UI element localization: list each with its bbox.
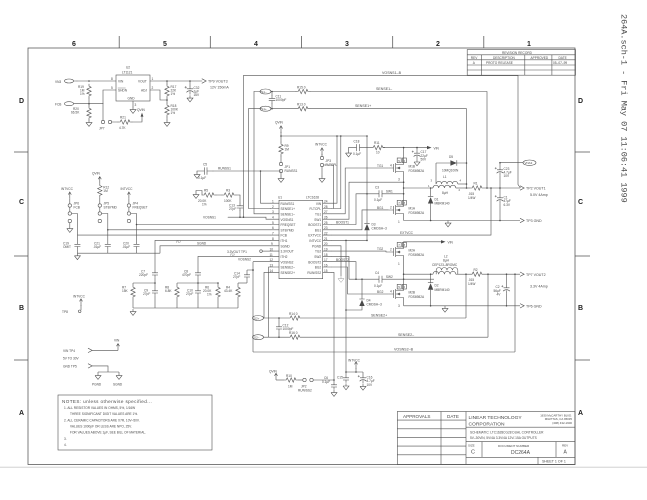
svg-text:THREE SIGNIFICANT DIGIT VALUES: THREE SIGNIFICANT DIGIT VALUES ARE 1%. — [70, 412, 138, 416]
wire TG1 — [332, 163, 393, 213]
capacitor C32 — [185, 80, 200, 97]
jumper JP2 — [298, 378, 334, 392]
svg-text:05–07–99: 05–07–99 — [553, 61, 567, 65]
svg-text:SW1: SW1 — [314, 218, 321, 222]
svg-text:FOR VALUES ABOVE 1µF, SEE BILL: FOR VALUES ABOVE 1µF, SEE BILL OF MATERI… — [70, 431, 146, 435]
test point TP6 — [520, 304, 542, 309]
node VIN TP4 — [63, 348, 118, 353]
jumper JP4 FREQSET — [127, 199, 147, 223]
svg-text:U2: U2 — [126, 66, 130, 70]
resistor R17 — [165, 80, 177, 103]
wire RUNSS1 — [213, 167, 281, 171]
svg-text:.01µF: .01µF — [93, 245, 101, 249]
svg-text:4: 4 — [390, 163, 392, 167]
svg-text:3.3VOUT: 3.3VOUT — [281, 250, 294, 254]
svg-text:JP7: JP7 — [99, 126, 105, 130]
svg-text:22: 22 — [324, 232, 328, 236]
resistor R12 — [98, 183, 110, 203]
svg-text:(*2): (*2) — [230, 252, 235, 256]
svg-text:APPROVED: APPROVED — [531, 56, 549, 60]
zone tick marks left — [14, 152, 28, 360]
wire PGND2 row — [404, 305, 520, 307]
svg-text:3: 3 — [398, 177, 400, 181]
resistor R19 — [78, 80, 91, 98]
svg-text:D5: D5 — [449, 155, 453, 159]
svg-text:3: 3 — [272, 210, 274, 214]
svg-text:6: 6 — [72, 41, 76, 48]
svg-text:SENSE2–: SENSE2– — [398, 333, 414, 337]
wire SENSE1- riser — [486, 92, 488, 189]
svg-text:TP3 GND: TP3 GND — [526, 219, 542, 223]
svg-text:S1+: S1+ — [261, 107, 267, 111]
svg-text:DATE: DATE — [559, 56, 567, 60]
svg-text:1M: 1M — [288, 385, 293, 389]
svg-text:S2–: S2– — [254, 336, 260, 340]
svg-text:BOOST1: BOOST1 — [308, 223, 321, 227]
test point TP9 — [202, 79, 229, 90]
ground on PGND2 row — [442, 306, 448, 312]
transistor M1B — [389, 159, 425, 181]
svg-text:4.7K: 4.7K — [119, 126, 126, 130]
left pin stubs — [271, 203, 280, 272]
wire M1B drain to VIN rail — [403, 148, 405, 159]
wire M2B drain to SW2 — [403, 279, 405, 285]
svg-text:2: 2 — [390, 206, 392, 210]
svg-text:FREQSET: FREQSET — [133, 206, 148, 210]
wire M2A source to SW2 — [403, 261, 405, 279]
ground under C17 — [414, 159, 420, 165]
diode D4 — [345, 278, 382, 310]
wire INTVCC bypass rail — [346, 371, 363, 373]
wire VOUT1 row — [484, 187, 520, 189]
svg-text:INTVCC: INTVCC — [315, 142, 328, 146]
svg-text:10MQ100N: 10MQ100N — [442, 168, 459, 172]
ground under JP1 — [278, 176, 284, 182]
svg-text:C: C — [578, 199, 583, 206]
svg-text:2: 2 — [390, 248, 392, 252]
svg-text:FCB: FCB — [281, 234, 287, 238]
wire BG2 — [332, 267, 393, 294]
svg-text:3: 3 — [398, 304, 400, 308]
svg-text:0.1µF: 0.1µF — [322, 380, 330, 384]
wire M2A drain to VIN — [404, 242, 441, 243]
wire VIN rail — [383, 147, 427, 149]
resistor R18 — [165, 103, 179, 120]
svg-text:VIN: VIN — [434, 146, 440, 150]
svg-text:C: C — [19, 199, 24, 206]
capacitor C21 — [93, 229, 111, 253]
svg-text:R10: R10 — [286, 374, 292, 378]
wire QVIN column — [280, 132, 282, 142]
svg-text:C: C — [471, 450, 475, 456]
ground under R18 — [164, 120, 170, 126]
power VIN arrow stage2 — [441, 240, 454, 244]
svg-text:28: 28 — [324, 205, 328, 209]
svg-text:2: 2 — [436, 41, 440, 48]
svg-text:RUN/SS2: RUN/SS2 — [307, 271, 321, 275]
U1 right pin names — [307, 202, 322, 275]
svg-text:QVIN: QVIN — [92, 171, 100, 175]
svg-text:FDS6982A: FDS6982A — [409, 169, 425, 173]
ground under C32 — [187, 96, 193, 102]
svg-text:VOSNS2: VOSNS2 — [281, 260, 294, 264]
svg-text:2: 2 — [272, 205, 274, 209]
svg-text:8: 8 — [272, 237, 274, 241]
wire VOSNS2-B row — [253, 348, 515, 352]
resistor R10 — [276, 374, 298, 389]
svg-text:B: B — [578, 305, 583, 312]
svg-text:27: 27 — [324, 210, 328, 214]
capacitor C10 — [186, 283, 201, 308]
transistor M2A — [389, 243, 425, 266]
zone tick marks top — [119, 36, 484, 48]
svg-text:5: 5 — [163, 41, 167, 48]
svg-text:R13 0: R13 0 — [297, 103, 306, 107]
svg-text:CORPORATION: CORPORATION — [469, 421, 506, 427]
capacitor C3 — [374, 186, 404, 202]
ground rail under bypass caps — [74, 253, 160, 259]
svg-text:50V: 50V — [421, 157, 428, 161]
capacitor C18 — [353, 139, 371, 156]
wire SENSE2- riser from pin 13 — [269, 267, 271, 337]
svg-text:MBRM140: MBRM140 — [435, 288, 450, 292]
resistor R9 — [279, 142, 289, 163]
svg-text:QVIN: QVIN — [269, 369, 277, 373]
wire ADJ divider tap — [150, 90, 167, 100]
diode D1 — [428, 188, 450, 221]
svg-text:26: 26 — [324, 216, 328, 220]
svg-text:BOOST2: BOOST2 — [308, 260, 321, 264]
svg-text:REVISION RECORD: REVISION RECORD — [502, 51, 533, 55]
capacitor C8 — [182, 269, 201, 283]
ground at C18 — [346, 148, 357, 157]
svg-text:FCB: FCB — [74, 206, 80, 210]
svg-text:DESCRIPTION: DESCRIPTION — [493, 56, 515, 60]
svg-text:1: 1 — [398, 262, 400, 266]
svg-text:QVIN: QVIN — [275, 120, 283, 124]
wire M1B source column — [403, 177, 405, 201]
svg-text:SENSE1+: SENSE1+ — [281, 207, 296, 211]
ground rail RC network — [130, 308, 238, 315]
svg-text:25: 25 — [324, 221, 328, 225]
svg-text:VIN: VIN — [448, 241, 454, 245]
jumper JP7 — [99, 104, 118, 131]
U1 right pin numbers — [324, 200, 328, 273]
svg-text:R1: R1 — [474, 182, 478, 186]
node FCB flag — [55, 102, 77, 107]
wire SENSE1+ riser — [466, 109, 468, 188]
wire S1- left stub — [254, 91, 261, 93]
ground PGND pin — [338, 276, 344, 282]
wire JP4 to FREQSET rail — [131, 214, 137, 225]
pin pads M1B — [397, 158, 406, 163]
diode D5 — [436, 155, 467, 184]
svg-text:R21: R21 — [120, 116, 126, 120]
svg-text:SCHEMATIC: LTC1628CG28 DUAL CO: SCHEMATIC: LTC1628CG28 DUAL CONTROLLER — [470, 431, 544, 435]
svg-text:SW2: SW2 — [314, 255, 321, 259]
svg-text:INTVCC: INTVCC — [348, 358, 361, 362]
svg-text:0.1µF: 0.1µF — [198, 176, 206, 180]
svg-text:BG1: BG1 — [377, 206, 384, 210]
wire JP3 to FLTCPL — [323, 165, 333, 209]
svg-text:470pF: 470pF — [182, 273, 191, 277]
svg-text:TP2 VOUT1: TP2 VOUT1 — [526, 187, 546, 191]
svg-text:NOTES: unless otherwise specif: NOTES: unless otherwise specified... — [62, 399, 152, 404]
test point TP3 — [520, 218, 542, 223]
resistor R7 — [122, 283, 135, 308]
svg-text:VOSNS1: VOSNS1 — [281, 218, 294, 222]
svg-text:GND TP5: GND TP5 — [63, 364, 77, 368]
svg-text:PGND: PGND — [92, 382, 102, 386]
pin pads M2A — [397, 242, 406, 247]
title block — [397, 412, 575, 465]
svg-text:20: 20 — [324, 242, 328, 246]
svg-text:VOSNS2: VOSNS2 — [238, 258, 251, 262]
svg-text:66.5K: 66.5K — [71, 111, 80, 115]
notes box — [58, 395, 212, 450]
svg-text:5.0V 4Amp: 5.0V 4Amp — [530, 193, 548, 197]
wire TG2 — [332, 247, 393, 252]
svg-text:VOSNS2–B: VOSNS2–B — [394, 348, 414, 352]
svg-text:R3: R3 — [226, 188, 230, 192]
svg-text:5V–30VIN, 5V/4A 3.3V/4A 12V/.1: 5V–30VIN, 5V/4A 3.3V/4A 12V/.15A OUTPUTS — [470, 436, 537, 440]
node 3.3VOUT TP1 — [227, 250, 271, 254]
svg-text:VIN: VIN — [114, 338, 120, 342]
svg-text:VIN: VIN — [118, 80, 124, 84]
wire M1A source to PGND rail — [403, 219, 405, 221]
capacitor C11 — [269, 91, 286, 110]
wire SW1 node — [431, 187, 433, 189]
svg-text:GND: GND — [128, 97, 136, 101]
capacitor C9 — [143, 283, 158, 308]
svg-text:43.4K: 43.4K — [224, 289, 233, 293]
transistor M1A — [389, 201, 425, 224]
svg-text:C18: C18 — [354, 139, 360, 143]
svg-text:TG2: TG2 — [377, 247, 383, 251]
wire SENSE2- row — [302, 333, 488, 337]
svg-text:VALUES 1000pF OR LESS ARE NPO,: VALUES 1000pF OR LESS ARE NPO, 25V. — [70, 425, 132, 429]
svg-text:RUN/SS2: RUN/SS2 — [298, 389, 312, 393]
wire BOOST1 — [332, 194, 380, 225]
capacitor C15 — [337, 372, 349, 383]
svg-text:VNA3: VNA3 — [525, 161, 533, 165]
svg-text:U1: U1 — [278, 196, 282, 200]
svg-text:R14 0: R14 0 — [289, 312, 298, 316]
ground under C15 — [343, 383, 349, 389]
svg-text:TP6 GND: TP6 GND — [526, 304, 542, 308]
svg-text:R15 0: R15 0 — [297, 85, 306, 89]
svg-text:15K: 15K — [122, 289, 129, 293]
wire INTVCC riser from pin 21 — [345, 240, 347, 372]
ground under R20 — [86, 120, 92, 126]
resistor R6 — [203, 282, 220, 308]
inductor L1 — [428, 175, 470, 195]
svg-text:4.: 4. — [64, 443, 67, 447]
ground PGND — [92, 372, 102, 386]
svg-text:5V TO 30V: 5V TO 30V — [63, 356, 80, 360]
wire VOUT2 row — [484, 273, 520, 275]
svg-text:15: 15 — [324, 269, 328, 273]
svg-text:C5: C5 — [203, 162, 207, 166]
svg-text:TG2: TG2 — [315, 250, 321, 254]
capacitor C14 — [233, 269, 254, 283]
svg-text:10V: 10V — [367, 383, 374, 387]
svg-text:DOCUMENT NUMBER: DOCUMENT NUMBER — [498, 444, 530, 448]
jumper JP6 FCB — [68, 199, 80, 226]
power QVIN arrow — [92, 171, 101, 183]
wire S1+ left stub — [249, 108, 262, 110]
wire BOOST2 — [332, 258, 357, 280]
test point TP2 — [520, 186, 548, 197]
node VNA3 flag — [523, 160, 536, 165]
svg-text:1M: 1M — [285, 148, 290, 152]
svg-text:8µH: 8µH — [442, 191, 449, 195]
svg-text:TP7 VOUT2: TP7 VOUT2 — [526, 273, 546, 277]
ground on PGND1 row — [445, 221, 451, 227]
wire VOSNS2 riser from pin 12 — [252, 262, 254, 352]
svg-text:TP9 VOUT3: TP9 VOUT3 — [208, 80, 228, 84]
wire FCB to R20 — [77, 98, 103, 106]
svg-text:LTC1628: LTC1628 — [306, 196, 319, 200]
wire INTVCC row — [332, 239, 368, 241]
svg-text:7: 7 — [272, 232, 274, 236]
node GND TP5 — [63, 364, 119, 372]
svg-text:6: 6 — [272, 226, 274, 230]
wire ITH1 rail — [133, 282, 155, 284]
power QVIN arrow — [269, 369, 278, 380]
svg-text:VN3: VN3 — [55, 80, 61, 84]
wire VN3 to U2 VIN — [77, 80, 116, 82]
svg-text:10V: 10V — [504, 174, 511, 178]
wire PGND1 row — [404, 220, 520, 222]
wire VOSNS1 — [203, 216, 271, 220]
svg-text:SENSE2+: SENSE2+ — [281, 271, 296, 275]
wire BG1 — [332, 206, 393, 230]
svg-text:VOSNS1: VOSNS1 — [203, 216, 216, 220]
svg-text:3: 3 — [345, 41, 349, 48]
svg-text:FLTCPL: FLTCPL — [310, 207, 322, 211]
svg-text:REV: REV — [471, 56, 478, 60]
svg-text:SENSE2–: SENSE2– — [281, 266, 296, 270]
svg-text:1: 1 — [527, 41, 531, 48]
inductor L2 — [432, 254, 470, 274]
resistor R21 — [118, 116, 132, 130]
power INTVCC arrow — [121, 187, 134, 199]
wire SENSE2+ row — [302, 314, 466, 318]
resistor R3 — [216, 188, 240, 202]
svg-text:EXTVCC: EXTVCC — [308, 234, 322, 238]
ground U2 GND pin — [132, 101, 134, 107]
svg-text:0.1µF: 0.1µF — [374, 198, 382, 202]
wire VOSNS1-B left riser to pin4 — [243, 76, 245, 218]
wire PGND stub — [332, 246, 342, 276]
svg-text:C4: C4 — [375, 271, 379, 275]
svg-text:12V 150mA: 12V 150mA — [210, 86, 229, 90]
svg-text:R16 0: R16 0 — [289, 331, 298, 335]
svg-text:9: 9 — [271, 242, 273, 246]
jumper JP3 — [320, 154, 337, 176]
svg-text:CEP123–8ROMC: CEP123–8ROMC — [432, 263, 458, 267]
wire SW2 riser from pin — [332, 256, 350, 279]
svg-text:R11: R11 — [374, 141, 380, 145]
diode D2 — [428, 274, 450, 306]
svg-text:(*1): (*1) — [176, 239, 181, 243]
svg-text:3.3V 4Amp: 3.3V 4Amp — [530, 284, 548, 288]
svg-text:BG1: BG1 — [315, 228, 322, 232]
resistor R2 — [468, 268, 484, 286]
power INTVCC arrow — [348, 358, 361, 372]
svg-text:REV: REV — [562, 444, 568, 448]
svg-text:8: 8 — [111, 77, 113, 81]
svg-text:TG1: TG1 — [315, 212, 321, 216]
transistor M2B — [389, 285, 425, 308]
svg-text:SGND: SGND — [113, 382, 123, 386]
svg-text:VIN TP4: VIN TP4 — [63, 349, 75, 353]
svg-text:18: 18 — [324, 253, 328, 257]
wire SW1 to inductor — [404, 187, 431, 189]
node S2+ flag — [253, 316, 289, 321]
power QVIN arrow — [275, 120, 283, 132]
svg-text:DATE: DATE — [447, 414, 459, 419]
svg-text:SHDN: SHDN — [118, 89, 128, 93]
svg-text:2. ALL CERAMIC CAPACITORS ARE: 2. ALL CERAMIC CAPACITORS ARE X7R, 10V–5… — [64, 419, 140, 423]
power INTVCC arrow — [61, 187, 74, 199]
capacitor C23 — [495, 162, 512, 189]
svg-text:S2+: S2+ — [254, 316, 260, 320]
wire SW2 row — [349, 278, 434, 280]
svg-text:INTVCC: INTVCC — [61, 187, 74, 191]
svg-text:SENSE1+: SENSE1+ — [355, 104, 371, 108]
capacitor C4 — [374, 271, 393, 288]
svg-text:16: 16 — [324, 263, 328, 267]
ground at R5 — [193, 191, 202, 199]
svg-text:INTVCC: INTVCC — [309, 239, 322, 243]
wire VOSNS1-B — [244, 71, 519, 76]
resistor R14 — [288, 312, 302, 320]
svg-text:VOUT: VOUT — [138, 80, 147, 84]
wire SENSE2+ riser to R2 — [465, 274, 467, 318]
wire RUNSS1 riser to pin1 — [261, 171, 271, 203]
svg-text:SGND: SGND — [197, 242, 207, 246]
U1 left pin names — [281, 202, 296, 275]
svg-text:D: D — [19, 98, 24, 105]
svg-text:3: 3 — [135, 103, 137, 107]
svg-text:R2: R2 — [474, 268, 478, 272]
svg-text:SIZE: SIZE — [468, 444, 475, 448]
svg-text:PGND: PGND — [312, 244, 322, 248]
svg-text:RUNSS1: RUNSS1 — [218, 167, 231, 171]
svg-text:4: 4 — [390, 290, 392, 294]
svg-text:BOOST2: BOOST2 — [336, 258, 349, 262]
svg-text:QVIN: QVIN — [137, 108, 145, 112]
node VN3 flag — [55, 79, 77, 84]
svg-text:27pF: 27pF — [233, 275, 240, 279]
capacitor C5 — [194, 162, 213, 180]
svg-text:CMDSH–3: CMDSH–3 — [372, 227, 387, 231]
capacitor C20 — [122, 224, 140, 254]
wire VIN riser to U1 pin 24 — [332, 136, 338, 203]
wire VOUT to TP9 — [150, 80, 202, 82]
wire C23 top rail — [500, 162, 518, 164]
wire VOSNS2 label to pin12 — [238, 258, 271, 262]
svg-text:A: A — [578, 410, 583, 417]
jumper JP5 STBYMD — [98, 202, 117, 223]
svg-text:1%: 1% — [80, 92, 85, 96]
svg-text:SENSE1–: SENSE1– — [281, 212, 296, 216]
svg-text:16V: 16V — [194, 93, 201, 97]
svg-text:INTVCC: INTVCC — [121, 187, 134, 191]
wire M2B source to PGND2 — [403, 303, 405, 306]
